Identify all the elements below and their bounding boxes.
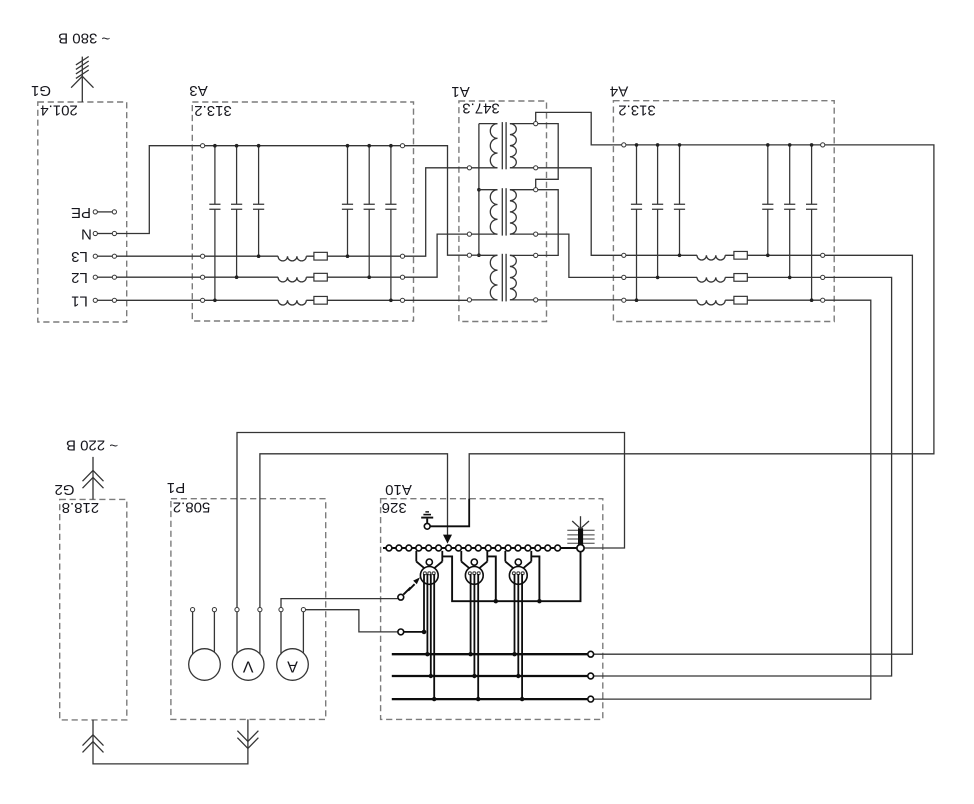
connector chevrons at P1 bottom (237, 731, 258, 749)
wire ammeter left to A10 switch (281, 599, 398, 608)
svg-text:347.3: 347.3 (462, 100, 500, 117)
tube V3 envelope (509, 567, 527, 585)
svg-text:L1: L1 (71, 292, 88, 309)
pin T3 sec bottom of A1 (510, 298, 538, 302)
supply connector arrow G2 (~220V feed) (83, 457, 104, 500)
junction dots of tube V1 leads (422, 630, 437, 702)
wire L1 from G1 to A3 (117, 299, 201, 301)
terminal row line of A10 (383, 547, 577, 549)
tube V2 envelope (465, 567, 483, 585)
tube socket V3 center pin (515, 559, 521, 565)
capacitor C4 of A3 (342, 144, 353, 258)
value label 313.2 (A4) (618, 102, 656, 119)
svg-text:326: 326 (382, 499, 407, 516)
meter terminal pin 3 of P1 (235, 608, 239, 654)
svg-text:~ 220 В: ~ 220 В (66, 437, 118, 454)
pin label PE (71, 204, 91, 221)
value label 508.2 (173, 499, 211, 516)
svg-text:313.2: 313.2 (618, 102, 656, 119)
wire L2 from A3 to T2 primary (405, 234, 468, 277)
pin label L1 (71, 292, 88, 309)
svg-text:A10: A10 (385, 481, 412, 498)
wire T1 sec bottom to A4 L3 input (538, 168, 622, 256)
output bus 3 of A10 (392, 696, 594, 702)
supply cable arrow G1 (~380V feed) (71, 57, 93, 103)
label A1 (451, 83, 469, 100)
pin T1 sec top of A1 (510, 122, 538, 126)
tube V1 heater (423, 572, 435, 575)
terminal circles left A4 (622, 143, 626, 303)
wire N output from A4 to A10 earth terminal (431, 145, 934, 526)
value label 313.2 (A3) (194, 102, 232, 119)
junction dots of tube V3 leads (512, 652, 524, 701)
svg-text:L3: L3 (71, 248, 88, 265)
tube V3 lead wires (515, 574, 523, 699)
terminal circles left A3 (201, 144, 205, 303)
svg-text:A4: A4 (610, 83, 628, 100)
pin label L3 (71, 248, 88, 265)
wire tube V1 plate to common plate line (442, 552, 580, 602)
value label 347.3 (462, 100, 500, 117)
svg-text:201.4: 201.4 (40, 102, 78, 119)
pin label L2 (71, 269, 88, 286)
wire tube V3 plate drop (531, 556, 539, 601)
tube V3 heater (512, 572, 524, 575)
svg-text:~ 380 В: ~ 380 В (58, 29, 110, 46)
label P1 (167, 479, 185, 496)
tube socket V2 funnel (461, 551, 487, 569)
capacitor C2 of A3 (231, 144, 242, 279)
tube socket V1 center pin (426, 559, 432, 565)
terminal circles right A4 (821, 143, 825, 303)
terminal row contacts (18 circles) (386, 545, 560, 551)
wire linking G2 bottom to P1 bottom (93, 719, 248, 764)
device A4 dashed outline (613, 101, 834, 322)
svg-text:A1: A1 (451, 83, 469, 100)
capacitor C5 of A3 (364, 144, 375, 279)
label ~380V supply (58, 29, 110, 46)
wire T1 sec top to A4 neutral input (536, 112, 622, 144)
multi-pin connector black bar (578, 528, 583, 546)
tube V2 heater (468, 572, 480, 575)
wire earth terminal to N line (430, 499, 469, 527)
terminal pair PE of G1 (93, 210, 116, 214)
wire L3 from G1 to A3 (117, 255, 201, 257)
device P1 dashed outline (171, 499, 326, 720)
wire T2 primary bottom to pin (467, 232, 497, 236)
output bus 2 of A10 (392, 673, 594, 679)
svg-text:508.2: 508.2 (173, 499, 211, 516)
terminal pair L1 of G1 (93, 298, 116, 302)
pin to tube V1 grid (398, 629, 426, 635)
phase line with inductor L and resistor R (A3 row 3) (205, 296, 401, 305)
svg-text:218.8: 218.8 (62, 499, 100, 516)
terminal pair L2 of G1 (93, 275, 116, 279)
wire L3 output from A4 to A10 bus 1 (594, 255, 913, 654)
meter terminal pin 2 of P1 (212, 608, 216, 653)
device G1 dashed outline (38, 102, 127, 322)
meter terminal pin 1 of P1 (191, 608, 195, 655)
probe arrow into terminal row (443, 535, 452, 544)
earth terminal circle (424, 523, 430, 529)
transformer T3 of A1 (primary winding, core, secondary winding) (490, 254, 516, 302)
voltmeter V (232, 649, 264, 681)
earth ground symbol of A10 (421, 512, 433, 524)
wire tube V2 plate drop (487, 556, 496, 601)
meter M1 (blank) (189, 649, 221, 681)
wire L2 from G1 to A3 (117, 276, 201, 278)
device G2 dashed outline (60, 499, 127, 720)
svg-text:P1: P1 (167, 479, 185, 496)
star-point pin of A1 (467, 253, 479, 257)
tube socket V3 funnel (505, 551, 531, 569)
svg-text:313.2: 313.2 (194, 102, 232, 119)
capacitor C2 of A4 (652, 143, 663, 279)
pin label N (81, 226, 92, 243)
wire L2 output from A4 to A10 bus 2 (594, 277, 892, 676)
value label 201.4 (40, 102, 78, 119)
wire T1 primary bottom to pin (467, 166, 497, 170)
wire T3 sec bottom to A4 L1 input (538, 299, 622, 301)
transformer T1 of A1 (primary winding, core, secondary winding) (490, 122, 516, 169)
connector fan-out rays (572, 516, 589, 528)
neutral bus wire A3 (205, 145, 401, 147)
selector switch of A10 (398, 577, 420, 600)
svg-text:A: A (287, 657, 298, 674)
tube V1 envelope (420, 567, 438, 585)
svg-text:G2: G2 (54, 481, 74, 498)
wire L1 output from A4 to A10 bus 3 (594, 300, 871, 699)
wire voltmeter right to A10 arrow probe (260, 454, 448, 608)
svg-text:L2: L2 (71, 269, 88, 286)
meter terminal pin 4 of P1 (258, 608, 262, 655)
svg-text:A3: A3 (189, 82, 207, 99)
pin T2 sec top of A1 (510, 188, 538, 192)
primary star bus of A1 (477, 124, 481, 257)
phase line with inductor L and resistor R (A4 row 1) (626, 251, 821, 260)
label A4 (610, 83, 628, 100)
junction dots of tube V2 leads (468, 652, 480, 701)
capacitor C6 of A4 (806, 143, 817, 302)
capacitor C4 of A4 (762, 143, 773, 257)
wire voltmeter left to terminal row extension (237, 433, 625, 608)
tube V1 lead wires (424, 574, 434, 699)
meter terminal pin 5 of P1 (279, 608, 283, 655)
device A10 dashed outline (381, 499, 603, 720)
svg-text:PE: PE (71, 204, 91, 221)
terminal pair N of G1 (93, 231, 116, 235)
output bus 1 of A10 (392, 651, 594, 657)
capacitor C1 of A3 (209, 144, 220, 302)
tube V2 lead wires (471, 574, 479, 699)
wire ammeter right to A10 lower pin (306, 610, 398, 632)
value label 326 (382, 499, 407, 516)
wire T3 primary top to star bus (479, 254, 498, 256)
transformer T2 of A1 (primary winding, core, secondary winding) (490, 188, 516, 235)
value label 218.8 (62, 499, 100, 516)
device A1 dashed outline (459, 101, 547, 322)
phase line with inductor L and resistor R (A4 row 3) (626, 296, 821, 305)
neutral bus wire A4 (626, 144, 821, 146)
label G2 (54, 481, 74, 498)
capacitor C5 of A4 (784, 143, 795, 279)
pin T2 sec bottom of A1 (510, 232, 538, 236)
pin T3 sec top of A1 (510, 253, 538, 257)
ammeter A (277, 649, 309, 681)
wire L3 from A3 to T1 primary (405, 168, 468, 256)
tube socket V1 funnel (416, 551, 442, 569)
wire link T1 sec top to T2 sec top (536, 124, 559, 188)
pin T1 sec bottom of A1 (510, 166, 538, 170)
connector chevrons at G2 bottom (83, 735, 104, 753)
capacitor C3 of A4 (674, 143, 685, 257)
tube socket V2 center pin (471, 559, 477, 565)
multi-pin connector hatch lines (567, 530, 594, 543)
label G1 (31, 82, 51, 99)
terminal circles right A3 (400, 144, 404, 303)
device A3 dashed outline (192, 102, 413, 321)
svg-text:G1: G1 (31, 82, 51, 99)
label A3 (189, 82, 207, 99)
capacitor C1 of A4 (631, 143, 642, 302)
wire N from A3 to A1 star point (405, 146, 468, 256)
wire N from G1 to A3 (117, 146, 201, 234)
svg-text:V: V (243, 657, 254, 674)
junction dots on plate line (494, 599, 542, 603)
label ~220V supply (66, 437, 118, 454)
wire T2 primary top to star bus (479, 189, 498, 191)
big terminal under connector (577, 545, 584, 552)
phase line with inductor L and resistor R (A3 row 2) (205, 273, 401, 282)
wire T2 sec bottom to A4 L2 input (538, 234, 622, 277)
phase line with inductor L and resistor R (A4 row 2) (626, 274, 821, 283)
capacitor C3 of A3 (253, 144, 264, 258)
capacitor C6 of A3 (385, 144, 396, 302)
wire T3 primary bottom to pin (467, 298, 497, 302)
svg-text:N: N (81, 226, 92, 243)
meter terminal pin 6 of P1 (301, 608, 305, 653)
terminal pair L3 of G1 (93, 254, 116, 258)
wire link T2 sec top to T3 sec top (538, 190, 558, 256)
label A10 (385, 481, 412, 498)
wire L1 from A3 to T3 primary (405, 299, 468, 301)
wire T1 primary top to star bus (479, 123, 498, 125)
phase line with inductor L and resistor R (A3 row 1) (205, 252, 401, 261)
